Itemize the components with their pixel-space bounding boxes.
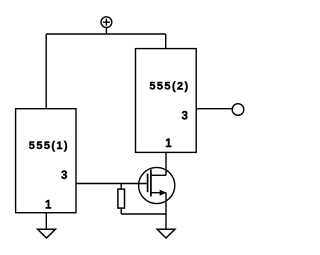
wire R1 to Q1 source [121, 213, 166, 215]
svg-text:555(1): 555(1) [29, 140, 69, 152]
transistor Q1 source arrow [160, 190, 167, 196]
output terminal circle [232, 104, 244, 116]
power terminal plus sign [103, 19, 110, 26]
svg-text:1: 1 [165, 138, 172, 150]
wire top rail [46, 33, 166, 35]
wire U1 pin3 to Q1 gate [76, 183, 148, 185]
transistor Q1 source link [151, 192, 166, 194]
IC U1 555(1) [16, 109, 76, 213]
svg-text:1: 1 [45, 200, 52, 212]
wire U2 pin3 to output [196, 108, 232, 110]
wire power stub [105, 28, 107, 34]
resistor R1 body [118, 189, 125, 208]
transistor Q1 channel bar [150, 170, 152, 197]
svg-text:3: 3 [61, 170, 67, 182]
svg-text:555(2): 555(2) [149, 80, 189, 92]
ground GND1 [38, 229, 56, 238]
resistor R1 bottom stub [120, 208, 122, 214]
svg-text:3: 3 [181, 110, 187, 122]
wire left drop to U1 [45, 34, 47, 109]
transistor Q1 gate bar [147, 174, 149, 193]
wire U2 pin1 to Q1 drain [165, 152, 167, 175]
power terminal V+ circle [101, 17, 112, 28]
IC U2 555(2) [136, 49, 197, 153]
wire right drop to U2 [165, 34, 167, 49]
transistor Q1 drain link [151, 174, 166, 176]
resistor R1 top stub [120, 184, 122, 190]
wire U1 pin1 ground stub [45, 213, 47, 230]
wire Q1 source to ground [165, 193, 167, 230]
ground GND2 [157, 229, 175, 238]
transistor Q1 circle [139, 167, 175, 203]
